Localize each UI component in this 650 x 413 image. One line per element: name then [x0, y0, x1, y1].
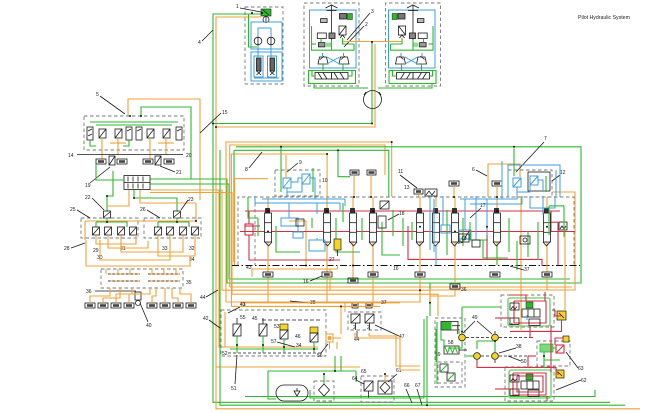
- svg-text:61: 61: [396, 368, 402, 374]
- svg-text:21: 21: [176, 170, 182, 176]
- wire: green drop to solenoid 22: [107, 171, 113, 211]
- internal green rails: [90, 121, 178, 123]
- leader line: [508, 356, 521, 361]
- relief valve b: [126, 127, 132, 140]
- svg-text:2: 2: [365, 22, 368, 28]
- svg-text:53: 53: [274, 324, 280, 330]
- wire: orange: [336, 342, 338, 349]
- wire: green hook under box 3: [378, 83, 432, 88]
- svg-text:57: 57: [271, 339, 277, 345]
- wire: orange frame inner top: [230, 145, 385, 287]
- wire: orange drop from manifold: [107, 190, 129, 206]
- pilot trapezoid a: [318, 57, 328, 64]
- svg-text:18: 18: [399, 211, 405, 217]
- leader line: [400, 175, 417, 188]
- leader line: [95, 290, 136, 292]
- wire: green drop to box 12: [513, 148, 515, 176]
- svg-text:28: 28: [64, 246, 70, 252]
- wire: orange: [329, 269, 331, 290]
- svg-text:38: 38: [516, 344, 522, 350]
- valve 2a: [351, 314, 360, 323]
- leader line: [510, 266, 524, 270]
- svg-text:23: 23: [188, 197, 194, 203]
- svg-text:35: 35: [186, 280, 192, 286]
- travel valve box lower right: [495, 367, 554, 401]
- svg-text:66: 66: [404, 383, 410, 389]
- block outline dashed: [238, 197, 574, 265]
- orange feeders mid-bottom: [240, 302, 400, 304]
- yellow port squares: [556, 311, 569, 378]
- red relief sub-circuit left: [245, 211, 340, 260]
- wire: green: [334, 356, 336, 371]
- reducer valves in 26: [155, 227, 162, 235]
- wire: orange bottom long: [226, 301, 420, 303]
- pilot filter box 9/10 (blue, above main block): [275, 160, 328, 196]
- wire: green drain inside box 1: [249, 14, 258, 47]
- solenoid valve 22: [85, 195, 111, 218]
- svg-text:25: 25: [70, 207, 76, 213]
- wire: orange mid horizontal 287: [230, 286, 572, 288]
- svg-text:43: 43: [246, 265, 252, 271]
- leader line: [417, 389, 422, 405]
- wire: orange inner block loop: [235, 179, 268, 265]
- port boxes below block: [263, 272, 552, 289]
- svg-text:8: 8: [245, 167, 248, 173]
- wire: green second bottom bus: [220, 150, 625, 405]
- svg-text:22: 22: [85, 195, 91, 201]
- wire: orange manifold bus 2: [150, 193, 438, 317]
- reducing valve right: [339, 26, 346, 35]
- shuttle manifold 22/23: [124, 176, 150, 190]
- orange spool feed verticals (behind spools): [268, 197, 547, 265]
- valve 2b: [365, 314, 374, 323]
- wire: green manifold bus 2: [150, 184, 570, 279]
- wire: orange link 269: [252, 265, 338, 277]
- spool valve S3: [350, 209, 358, 266]
- spring cylinder: [444, 346, 459, 354]
- port marker M: [318, 43, 325, 47]
- wire: red bus to lower travel box: [477, 360, 556, 370]
- wire: green manifold bus 1: [150, 179, 430, 283]
- spool valve S1: [265, 209, 273, 266]
- line 14 divider: [77, 154, 183, 156]
- blue small valves right: [459, 230, 471, 239]
- suction strainer 60: [314, 374, 334, 401]
- wire: orange rail in box 41: [219, 190, 318, 347]
- orange distribution tree to groups 25/26: [85, 203, 196, 266]
- svg-text:52: 52: [222, 351, 228, 357]
- pump (main pilot pump): [364, 91, 382, 109]
- check valve 21: [155, 156, 161, 165]
- wire: orange left bundle drop: [216, 127, 640, 409]
- leader line: [344, 26, 364, 47]
- wire: orange: [340, 306, 342, 334]
- green network inside block: [248, 168, 564, 270]
- svg-text:13: 13: [404, 185, 410, 191]
- svg-text:42: 42: [203, 316, 209, 322]
- pilot operated valve box 12: [508, 170, 566, 197]
- reducing valve 10a: [283, 178, 291, 188]
- svg-text:2: 2: [367, 325, 370, 331]
- svg-text:62: 62: [581, 378, 587, 384]
- leader line: [463, 321, 475, 333]
- bottom tank boxes row: [85, 303, 196, 308]
- wire: green drop to box 9: [280, 147, 282, 192]
- wire: orange inner drop S-extra: [289, 221, 306, 265]
- svg-text:34: 34: [296, 343, 302, 349]
- blue pilot network inside block: [255, 161, 560, 252]
- svg-text:14: 14: [68, 153, 74, 159]
- svg-text:45: 45: [252, 316, 258, 322]
- wire: green left bundle drop: [213, 124, 610, 403]
- leader line: [160, 166, 175, 172]
- leader line: [462, 230, 470, 242]
- pilot control group 26: [144, 218, 201, 238]
- leader line: [206, 290, 218, 297]
- pilot reducer b1: [147, 129, 154, 138]
- leader line: [310, 276, 322, 281]
- svg-text:1: 1: [236, 4, 239, 10]
- leader line: [321, 344, 328, 353]
- orange internal drops: [101, 138, 103, 159]
- leader line: [147, 210, 160, 218]
- lower green section: [309, 71, 356, 84]
- wire: green frame bus 2: [234, 150, 389, 196]
- pilot port circles (yellow): [459, 331, 536, 363]
- svg-text:55: 55: [240, 315, 246, 321]
- wire: red: [550, 211, 552, 231]
- pilot reducer a1: [99, 129, 106, 138]
- svg-text:12: 12: [560, 170, 566, 176]
- solenoid valve 23: [174, 197, 194, 218]
- wire: red: [545, 221, 558, 223]
- green loop wiring: [312, 43, 317, 45]
- spool valve S5: [416, 209, 424, 266]
- spool valve S8: [493, 209, 501, 266]
- pilot valve bank 5 (left): [84, 116, 184, 159]
- port marker MA: [321, 19, 328, 23]
- svg-text:19: 19: [85, 183, 91, 189]
- wire: green manifold left port: [96, 164, 124, 180]
- relief valve 18: [380, 201, 405, 220]
- filter group 64/65/61: [361, 374, 394, 402]
- svg-text:67: 67: [415, 383, 421, 389]
- svg-text:7: 7: [544, 136, 547, 142]
- wire: green supply from valve1 to left drop: [213, 14, 261, 124]
- svg-text:44: 44: [200, 295, 206, 301]
- damper valve: [340, 14, 347, 20]
- svg-text:56: 56: [317, 353, 323, 359]
- wire: orange: [224, 312, 226, 347]
- svg-text:26: 26: [140, 207, 146, 213]
- relief valve c: [136, 127, 142, 140]
- leader line: [356, 380, 364, 384]
- wire: green tank loop bus: [245, 390, 595, 397]
- leader line: [202, 30, 213, 41]
- wire: orange frame bus 3: [231, 154, 327, 306]
- leader line: [477, 321, 492, 334]
- relief valve a: [87, 127, 93, 140]
- leader line: [406, 389, 412, 403]
- pump circle small: [263, 17, 269, 23]
- svg-text:33: 33: [162, 246, 168, 252]
- blue net from box 12 down: [460, 192, 517, 199]
- spool valve S6: [432, 209, 440, 266]
- valve 1 green solenoid: [261, 9, 271, 16]
- svg-text:3: 3: [371, 9, 374, 15]
- svg-text:58: 58: [448, 340, 454, 346]
- svg-text:Pilot Hydraulic System: Pilot Hydraulic System: [578, 15, 630, 21]
- leader line: [499, 348, 516, 353]
- orange drops below block to lower bus: [268, 231, 565, 330]
- pressure switch 27 (yellow): [329, 239, 341, 263]
- svg-text:36: 36: [86, 289, 92, 295]
- leader line: [347, 13, 370, 40]
- svg-text:11: 11: [398, 169, 403, 175]
- svg-text:29: 29: [93, 248, 99, 254]
- check valve glyphs between spools: [296, 216, 530, 247]
- wire: green drop to solenoid 23: [134, 190, 177, 211]
- wire: green frame left drop: [233, 150, 235, 262]
- svg-text:63: 63: [578, 366, 584, 372]
- wire: green drop from link: [371, 42, 373, 44]
- wire: orange feed to pilot manifold left: [128, 99, 200, 200]
- leader line: [228, 307, 240, 313]
- spool valve S7: [451, 209, 459, 266]
- wire: green pump riser: [213, 44, 372, 124]
- solenoid valve 56 orange: [326, 334, 333, 342]
- leader line: [556, 380, 581, 390]
- solenoid valve 53 yellow top: [280, 324, 288, 330]
- green wrap wiring: [436, 322, 438, 384]
- leader line: [476, 170, 487, 176]
- leader line: [516, 142, 544, 172]
- pilot control group 25: [81, 218, 138, 238]
- pilot reducer b2: [163, 129, 170, 138]
- svg-text:10: 10: [322, 178, 328, 184]
- reducing valve 10b: [302, 174, 310, 184]
- joystick lever: [331, 5, 333, 15]
- leader line: [388, 374, 397, 382]
- wire: green hook under box 2: [314, 83, 368, 88]
- red pressure bus upper: [245, 210, 560, 212]
- wire: orange: [231, 305, 380, 307]
- leader line: [375, 325, 399, 336]
- svg-text:9: 9: [299, 160, 302, 166]
- brake cylinder: [441, 322, 458, 331]
- svg-text:5: 5: [96, 92, 99, 98]
- svg-text:50: 50: [521, 359, 527, 365]
- wire: green port link: [338, 150, 350, 176]
- leader line: [77, 210, 90, 218]
- svg-text:64: 64: [352, 376, 358, 382]
- shuttle box 58 (mid right): [537, 341, 570, 366]
- pilot reducer a2: [115, 129, 122, 138]
- leader line: [90, 167, 110, 183]
- accumulator charge group 44/47: [348, 303, 381, 331]
- svg-text:37: 37: [524, 267, 530, 273]
- spool valve S9: [543, 209, 551, 266]
- main control valve block: [232, 197, 580, 266]
- wire: orange: [355, 333, 420, 370]
- inner manifold lower: [251, 52, 282, 81]
- leader line: [290, 301, 309, 303]
- orange drops from manifold 36 to tank boxes: [90, 288, 191, 303]
- accumulator 2: [270, 58, 275, 71]
- port boxes above block: [350, 170, 502, 197]
- svg-text:49: 49: [472, 315, 478, 321]
- green meter valve: [317, 33, 326, 39]
- connector row right: [148, 273, 180, 275]
- solenoid valve 45: [259, 324, 267, 336]
- svg-text:2: 2: [353, 325, 356, 331]
- svg-text:6: 6: [472, 167, 475, 173]
- svg-text:20: 20: [186, 153, 192, 159]
- svg-text:16: 16: [303, 279, 309, 285]
- hydraulic tank: [276, 385, 308, 401]
- green loop around tank: [268, 370, 356, 372]
- relief valve 17r: [559, 222, 567, 230]
- wire: orange manifold to tree: [140, 190, 196, 203]
- green solenoid small: [347, 14, 352, 20]
- svg-text:15: 15: [222, 110, 228, 116]
- wire: green frame bus main: [236, 147, 581, 316]
- drain valve 40: [135, 292, 152, 329]
- leader line: [249, 152, 262, 168]
- leader line: [470, 208, 481, 218]
- pilot trapezoid b: [339, 57, 349, 64]
- wire: orange supply from valve1 to left drop: [216, 17, 261, 127]
- pressure valve 13 glyph: [425, 189, 437, 196]
- red lower rectangle right: [408, 226, 542, 266]
- svg-text:32: 32: [189, 246, 195, 252]
- return filter 61: [378, 381, 392, 394]
- orange drops below block to port row: [268, 265, 547, 284]
- blue verticals right half: [429, 196, 431, 250]
- leader line: [100, 96, 125, 114]
- svg-text:37: 37: [381, 300, 387, 306]
- green pilot lines bottom right: [310, 307, 544, 405]
- wire: red: [557, 222, 559, 265]
- spool valve S4: [369, 209, 377, 266]
- wire: orange link between joysticks: [343, 41, 403, 43]
- svg-text:46: 46: [295, 334, 301, 340]
- pilot valve box 3 (right joystick, mirrored copy): [386, 3, 441, 86]
- wire: red ball link bus: [510, 330, 562, 332]
- tank port boxes under bank 5: [96, 156, 174, 165]
- leader line: [209, 320, 220, 328]
- internal rails: [228, 352, 322, 354]
- block bottom dash-dot: [232, 265, 580, 267]
- svg-text:36: 36: [461, 287, 467, 293]
- leader line: [566, 352, 578, 368]
- block inner partition: [254, 197, 256, 265]
- wire: orange branch to filter: [216, 366, 360, 368]
- svg-text:27: 27: [329, 257, 335, 263]
- wire: orange loop 6: [488, 164, 520, 197]
- wire: green: [268, 371, 276, 399]
- red pilot lines bottom right: [509, 292, 563, 401]
- spool valve S2: [324, 209, 332, 266]
- wire: orange frame outer top: [226, 142, 392, 302]
- connector row left: [108, 273, 140, 275]
- wire: green: [355, 371, 357, 382]
- reducer valves in 25: [93, 227, 100, 235]
- svg-text:40: 40: [146, 323, 152, 329]
- solenoid valve 54 yellow top: [310, 327, 318, 333]
- check valve 19: [109, 156, 115, 165]
- swing brake group (bottom right green box): [435, 318, 467, 387]
- svg-text:43: 43: [240, 302, 246, 308]
- leader line: [71, 243, 85, 248]
- wire: orange: [333, 337, 341, 339]
- leader line: [356, 331, 358, 338]
- wire: orange: [369, 333, 420, 366]
- red verticals right: [486, 227, 488, 260]
- svg-text:16: 16: [393, 266, 399, 272]
- wire: orange manifold bus 1: [150, 190, 430, 290]
- solenoid manifold 41 (lower middle): [221, 310, 333, 356]
- pilot valve box 2 (left joystick): [304, 3, 359, 86]
- inner manifold upper: [251, 22, 282, 49]
- red mid bus: [240, 231, 575, 233]
- svg-text:65: 65: [361, 369, 367, 375]
- leader line: [200, 113, 221, 133]
- wire: orange right drop: [430, 192, 575, 302]
- solenoid valve block 1 (top-left): [236, 4, 283, 84]
- accumulator 1: [257, 58, 262, 71]
- relief valve d: [176, 127, 182, 140]
- leader line: [235, 355, 237, 384]
- wire: orange drop into box 9: [285, 155, 287, 178]
- leader line: [277, 342, 295, 347]
- junction manifold 36: [101, 269, 183, 288]
- sub valves: [438, 362, 462, 383]
- wire: orange: [344, 303, 346, 312]
- svg-text:4: 4: [198, 40, 201, 46]
- wire: orange pump riser: [216, 44, 375, 127]
- blue cross link: [327, 57, 340, 64]
- bypass valve 64: [364, 381, 373, 391]
- svg-text:51: 51: [231, 386, 237, 392]
- wire: green feed to pilot manifold left: [141, 107, 191, 179]
- wire: green: [340, 356, 342, 371]
- solenoid valve 55: [233, 324, 241, 336]
- wire: red link to ball: [457, 326, 459, 334]
- travel valve box upper right: [495, 295, 554, 327]
